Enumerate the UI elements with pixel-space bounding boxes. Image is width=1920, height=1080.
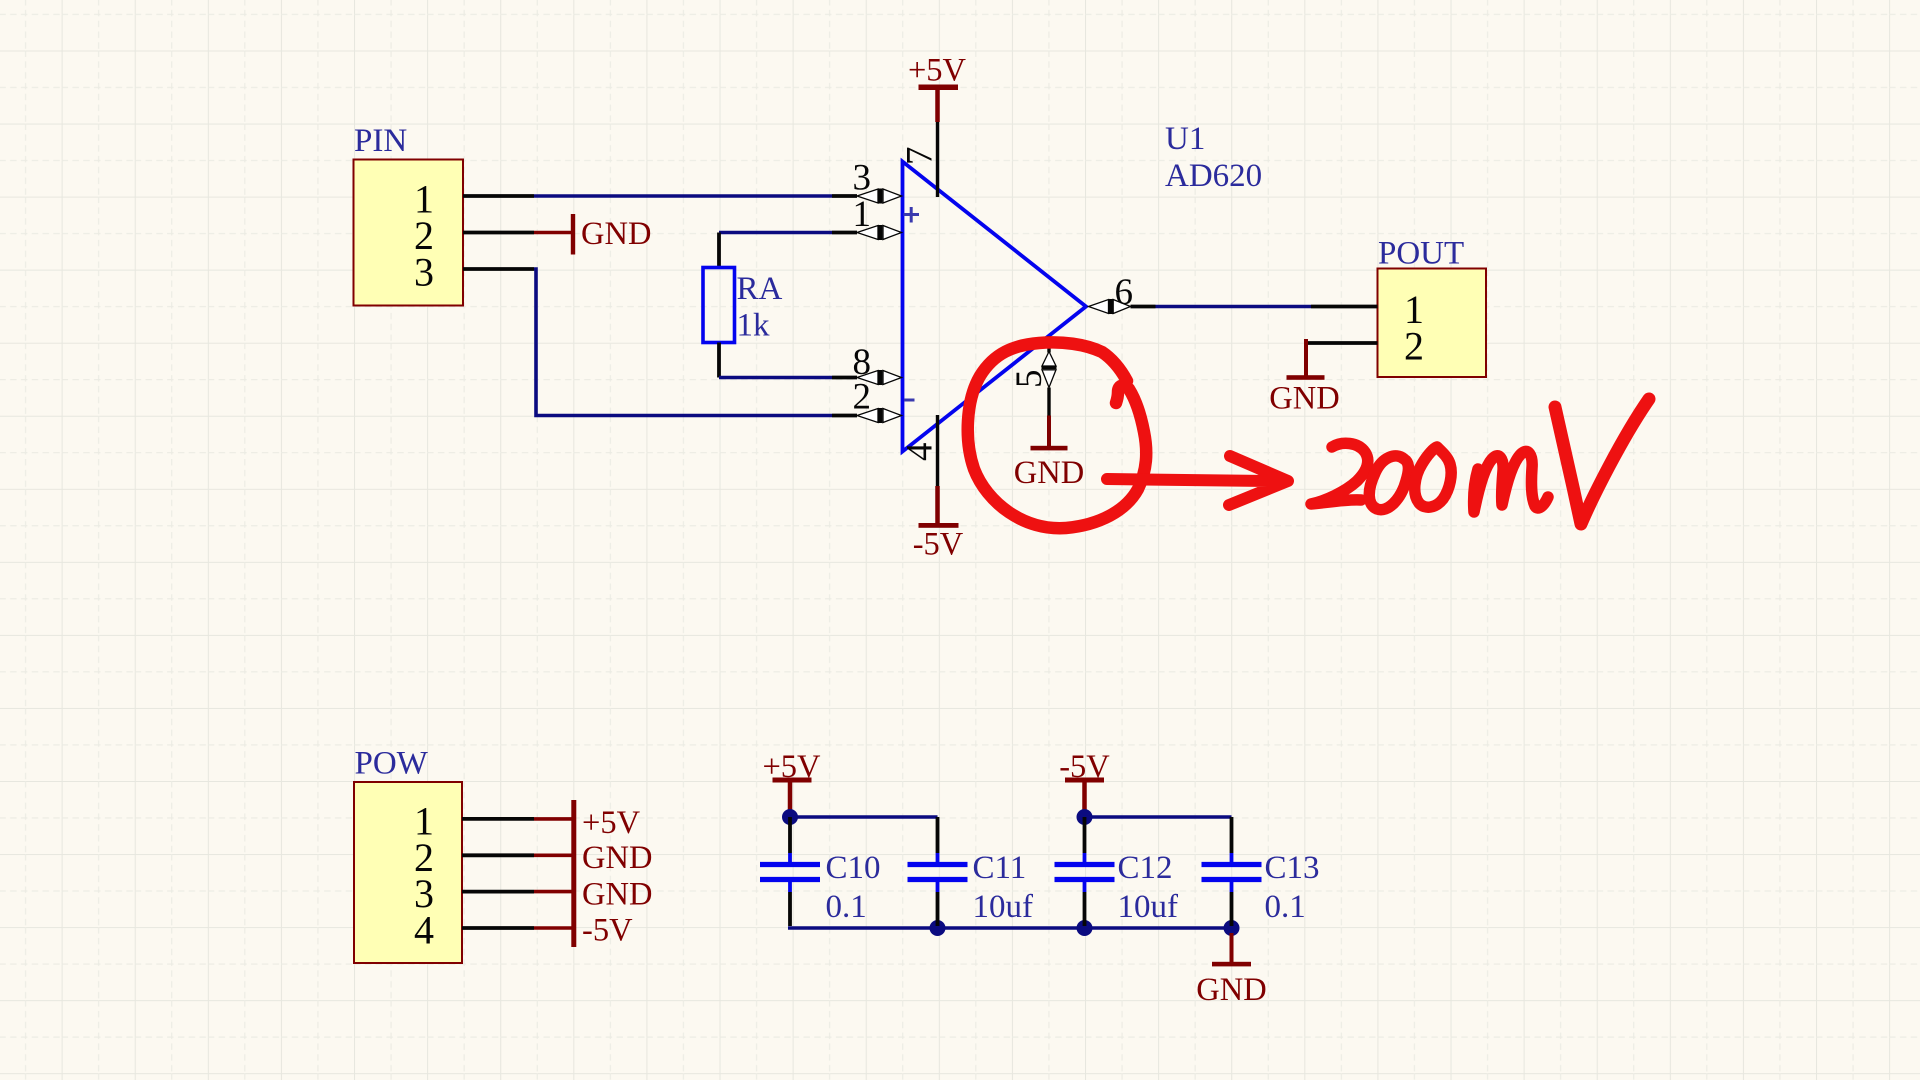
power port -5V at POW.4 bbox=[534, 913, 633, 949]
svg-text:U1: U1 bbox=[1165, 121, 1205, 157]
svg-text:3: 3 bbox=[414, 250, 434, 295]
connector POUT bbox=[1378, 236, 1487, 378]
capacitor C12 bbox=[1055, 817, 1115, 926]
svg-text:1k: 1k bbox=[737, 308, 771, 344]
svg-text:GND: GND bbox=[1014, 455, 1084, 491]
svg-text:0.1: 0.1 bbox=[1265, 889, 1306, 925]
svg-text:RA: RA bbox=[737, 271, 783, 307]
U1 pin 3 bbox=[832, 158, 902, 204]
wire +5V rail to C11 bbox=[790, 815, 938, 819]
C13 value 0.1 bbox=[1265, 889, 1306, 925]
svg-text:C13: C13 bbox=[1265, 850, 1320, 886]
power port GND (cap bank) bbox=[1196, 933, 1266, 1008]
svg-text:POW: POW bbox=[355, 746, 429, 782]
power port -5V at U1 pin 4 bbox=[913, 486, 964, 563]
annotation red circle around U1 pin 5 GND bbox=[968, 342, 1146, 528]
junction node C13/GND rail bbox=[1224, 920, 1240, 936]
wire RA to U1 pin 8 bbox=[719, 376, 832, 380]
power port GND at PIN.2 bbox=[534, 214, 651, 255]
svg-text:GND: GND bbox=[1196, 972, 1266, 1008]
junction node C12/GND rail bbox=[1077, 920, 1093, 936]
RA value 1k bbox=[737, 308, 771, 344]
C10 designator bbox=[826, 850, 881, 886]
wire PIN.3 to U1 pin 2 bbox=[534, 269, 832, 416]
power port GND at U1 pin 5 bbox=[1014, 416, 1084, 492]
power port GND at POW.3 bbox=[534, 877, 652, 913]
U1 pin 8 bbox=[832, 342, 902, 385]
wire -5V rail to C13 bbox=[1085, 815, 1232, 819]
svg-text:GND: GND bbox=[582, 877, 652, 913]
connector POW bbox=[354, 746, 462, 964]
svg-text:4: 4 bbox=[414, 908, 434, 953]
svg-text:C12: C12 bbox=[1118, 850, 1173, 886]
capacitor C10 bbox=[760, 817, 820, 926]
svg-text:C10: C10 bbox=[826, 850, 881, 886]
pin POW.2 bbox=[462, 853, 534, 857]
power port GND at POUT.2 bbox=[1269, 339, 1339, 417]
svg-text:C11: C11 bbox=[973, 850, 1027, 886]
capacitor C13 bbox=[1202, 817, 1262, 926]
C10 value 0.1 bbox=[826, 889, 867, 925]
C11 value 10uf bbox=[973, 889, 1034, 925]
annotation handwritten 200 mV bbox=[1311, 399, 1649, 524]
C12 designator bbox=[1118, 850, 1173, 886]
svg-text:+5V: +5V bbox=[908, 53, 967, 89]
power port +5V at U1 pin 7 bbox=[908, 53, 967, 123]
U1 pin 6 bbox=[1089, 272, 1156, 314]
U1 pin 2 bbox=[832, 377, 902, 424]
annotation red arrow bbox=[1107, 456, 1288, 505]
svg-text:-5V: -5V bbox=[582, 913, 633, 949]
C13 designator bbox=[1265, 850, 1320, 886]
svg-text:1: 1 bbox=[853, 194, 872, 235]
U1 pin 5 bbox=[1009, 336, 1057, 416]
power port +5V at POW.1 bbox=[534, 805, 641, 841]
svg-text:0.1: 0.1 bbox=[826, 889, 867, 925]
U1 pin 4 bbox=[900, 415, 941, 486]
pin POW.3 bbox=[462, 890, 534, 894]
U1 plus input marker bbox=[904, 207, 920, 223]
C12 value 10uf bbox=[1118, 889, 1179, 925]
svg-text:GND: GND bbox=[1269, 381, 1339, 417]
U1 pin 7 bbox=[900, 122, 941, 197]
junction node at +5V rail bbox=[782, 809, 798, 825]
pin POUT.2 bbox=[1306, 341, 1378, 345]
power ports bar at POW bbox=[571, 800, 576, 947]
U1 designator bbox=[1165, 121, 1205, 157]
C11 designator bbox=[973, 850, 1027, 886]
op-amp U1 triangle bbox=[903, 162, 1087, 452]
connector PIN bbox=[354, 123, 464, 306]
svg-text:5: 5 bbox=[1009, 370, 1050, 389]
svg-text:PIN: PIN bbox=[354, 123, 407, 159]
pin POW.1 bbox=[462, 817, 534, 821]
svg-text:-5V: -5V bbox=[913, 527, 964, 563]
power port +5V (cap bank) bbox=[762, 749, 821, 813]
wire GND rail (bottom) bbox=[788, 926, 1232, 930]
power port GND at POW.2 bbox=[534, 840, 652, 876]
capacitor C11 bbox=[908, 817, 968, 926]
svg-text:7: 7 bbox=[900, 147, 941, 166]
U1 pin 1 bbox=[832, 194, 902, 240]
junction node at -5V rail bbox=[1077, 809, 1093, 825]
junction node C11/GND rail bbox=[930, 920, 946, 936]
U1 minus input marker bbox=[904, 399, 915, 402]
svg-text:6: 6 bbox=[1115, 272, 1134, 313]
pin PIN.1 bbox=[463, 194, 534, 198]
resistor RA bbox=[703, 233, 735, 378]
svg-text:4: 4 bbox=[900, 443, 941, 462]
svg-text:10uf: 10uf bbox=[973, 889, 1034, 925]
svg-text:10uf: 10uf bbox=[1118, 889, 1179, 925]
RA designator bbox=[737, 271, 783, 307]
svg-text:GND: GND bbox=[582, 840, 652, 876]
U1 value AD620 bbox=[1165, 158, 1262, 194]
power port -5V (cap bank) bbox=[1059, 749, 1110, 813]
svg-text:2: 2 bbox=[853, 377, 872, 418]
svg-text:AD620: AD620 bbox=[1165, 158, 1262, 194]
wire U1 pin 6 to POUT.1 bbox=[1156, 305, 1312, 309]
svg-text:GND: GND bbox=[581, 216, 651, 252]
svg-text:+5V: +5V bbox=[582, 805, 641, 841]
svg-text:3: 3 bbox=[853, 158, 872, 199]
wire PIN.1 to U1 pin 3 bbox=[534, 194, 832, 198]
wire U1 pin 1 to RA bbox=[719, 231, 832, 235]
pin POUT.1 bbox=[1311, 305, 1378, 309]
svg-text:POUT: POUT bbox=[1378, 236, 1464, 272]
pin PIN.2 bbox=[463, 231, 534, 235]
pin POW.4 bbox=[462, 926, 534, 930]
svg-text:2: 2 bbox=[1404, 324, 1424, 369]
pin PIN.3 bbox=[463, 267, 534, 271]
